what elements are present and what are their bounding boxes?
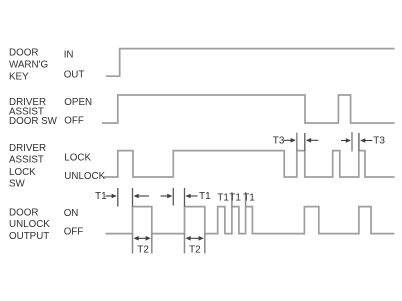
svg-text:KEY: KEY — [9, 71, 29, 82]
dimension bar: T2 pulse2 left extension x=184.5 lower — [184, 234, 186, 254]
svg-text:OUT: OUT — [64, 70, 85, 81]
svg-text:LOCK: LOCK — [64, 153, 91, 164]
label: row3 levels LOCK UNLOCK — [64, 153, 105, 182]
label: row1 DOOR WARN'G KEY — [9, 47, 48, 82]
dimension arrow: T3 left pointing left — [306, 138, 318, 143]
dimension bar: T1 bar at x=117.8 — [117, 188, 119, 207]
svg-text:LOCK: LOCK — [9, 167, 36, 178]
svg-text:UNLOCK: UNLOCK — [64, 171, 105, 182]
dimension bar: narrow pulse rise extension x=245.6 — [245, 192, 247, 207]
dimension arrow: pointing right at x=173.3 — [161, 194, 173, 199]
dimension bar: T2 pulse2 right extension x=204.8 lower — [204, 234, 206, 254]
svg-text:UNLOCK: UNLOCK — [9, 219, 50, 230]
dimension arrow: T2 double arrow pulse2 — [186, 236, 204, 241]
dimension bar: T2 pulse1 right extension x=151.8 lower — [151, 234, 153, 254]
svg-text:DRIVER: DRIVER — [9, 143, 46, 154]
label: row2 levels OPEN OFF — [64, 97, 92, 126]
svg-text:T1: T1 — [199, 191, 211, 202]
svg-text:OUTPUT: OUTPUT — [9, 231, 49, 242]
dimension arrow: T3 right pointing left — [360, 138, 372, 143]
svg-text:T1: T1 — [243, 192, 255, 203]
label: row3 DRIVER ASSIST LOCK SW — [9, 143, 46, 189]
dimension arrow: T3 left pointing right — [284, 138, 296, 143]
dimension bar: T3 right bar x=352 — [351, 132, 353, 152]
dimension bar: T3 right rise extension x=358.9 — [358, 133, 360, 151]
svg-text:DOOR: DOOR — [9, 207, 38, 218]
svg-text:DOOR: DOOR — [9, 47, 38, 58]
dimension arrow: pointing left at x=132.5 — [134, 194, 150, 199]
svg-text:OFF: OFF — [64, 115, 84, 126]
svg-text:T2: T2 — [189, 244, 201, 255]
dimension bar: T2 pulse1 left extension x=132.5 lower — [132, 234, 134, 254]
label: row2 DRIVER ASSIST DOOR SW — [9, 97, 58, 127]
dimension bar: T1 bar at x=184.5 upper — [184, 188, 186, 207]
svg-text:T1: T1 — [217, 192, 229, 203]
dimension arrow: T3 right pointing right — [341, 138, 351, 143]
waveform: DRIVER ASSIST DOOR SW (OPEN/OFF) — [102, 95, 395, 123]
label: row1 levels IN OUT — [64, 50, 85, 81]
svg-text:WARN'G: WARN'G — [9, 60, 48, 71]
svg-text:IN: IN — [64, 50, 74, 61]
dimension bar: T3 left rise extension x=296.8 — [296, 133, 298, 152]
svg-text:T3: T3 — [273, 136, 285, 147]
waveform: DOOR UNLOCK OUTPUT (ON/OFF) — [106, 207, 395, 234]
svg-text:T1: T1 — [95, 191, 107, 202]
waveform: DOOR WARN'G KEY (IN/OUT) — [106, 49, 395, 77]
dimension arrow: T1 left pointing right — [106, 194, 117, 199]
svg-text:DOOR SW: DOOR SW — [9, 116, 58, 127]
svg-text:SW: SW — [9, 179, 26, 190]
svg-text:ON: ON — [64, 208, 79, 219]
dimension bar: T1 bar at x=132.5 upper — [132, 188, 134, 207]
svg-text:ASSIST: ASSIST — [9, 155, 44, 166]
dimension bar: narrow pulse rise extension x=231.9 — [231, 192, 233, 207]
dimension arrow: pointing left at x=184.5 — [185, 194, 197, 199]
svg-text:T2: T2 — [137, 244, 149, 255]
svg-text:T3: T3 — [373, 136, 385, 147]
dimension arrow: T2 double arrow pulse1 — [134, 236, 151, 241]
dimension bar: T3 left fall extension x=304.8 — [304, 133, 306, 151]
svg-text:OPEN: OPEN — [64, 97, 92, 108]
waveform: DRIVER ASSIST LOCK SW (LOCK/UNLOCK) — [104, 151, 395, 177]
svg-text:OFF: OFF — [64, 226, 84, 237]
label: row4 DOOR UNLOCK OUTPUT — [9, 207, 50, 242]
svg-text:T1: T1 — [229, 192, 241, 203]
dimension bar: T1 bar at x=173.3 — [172, 188, 174, 206]
label: row4 levels ON OFF — [64, 208, 84, 237]
